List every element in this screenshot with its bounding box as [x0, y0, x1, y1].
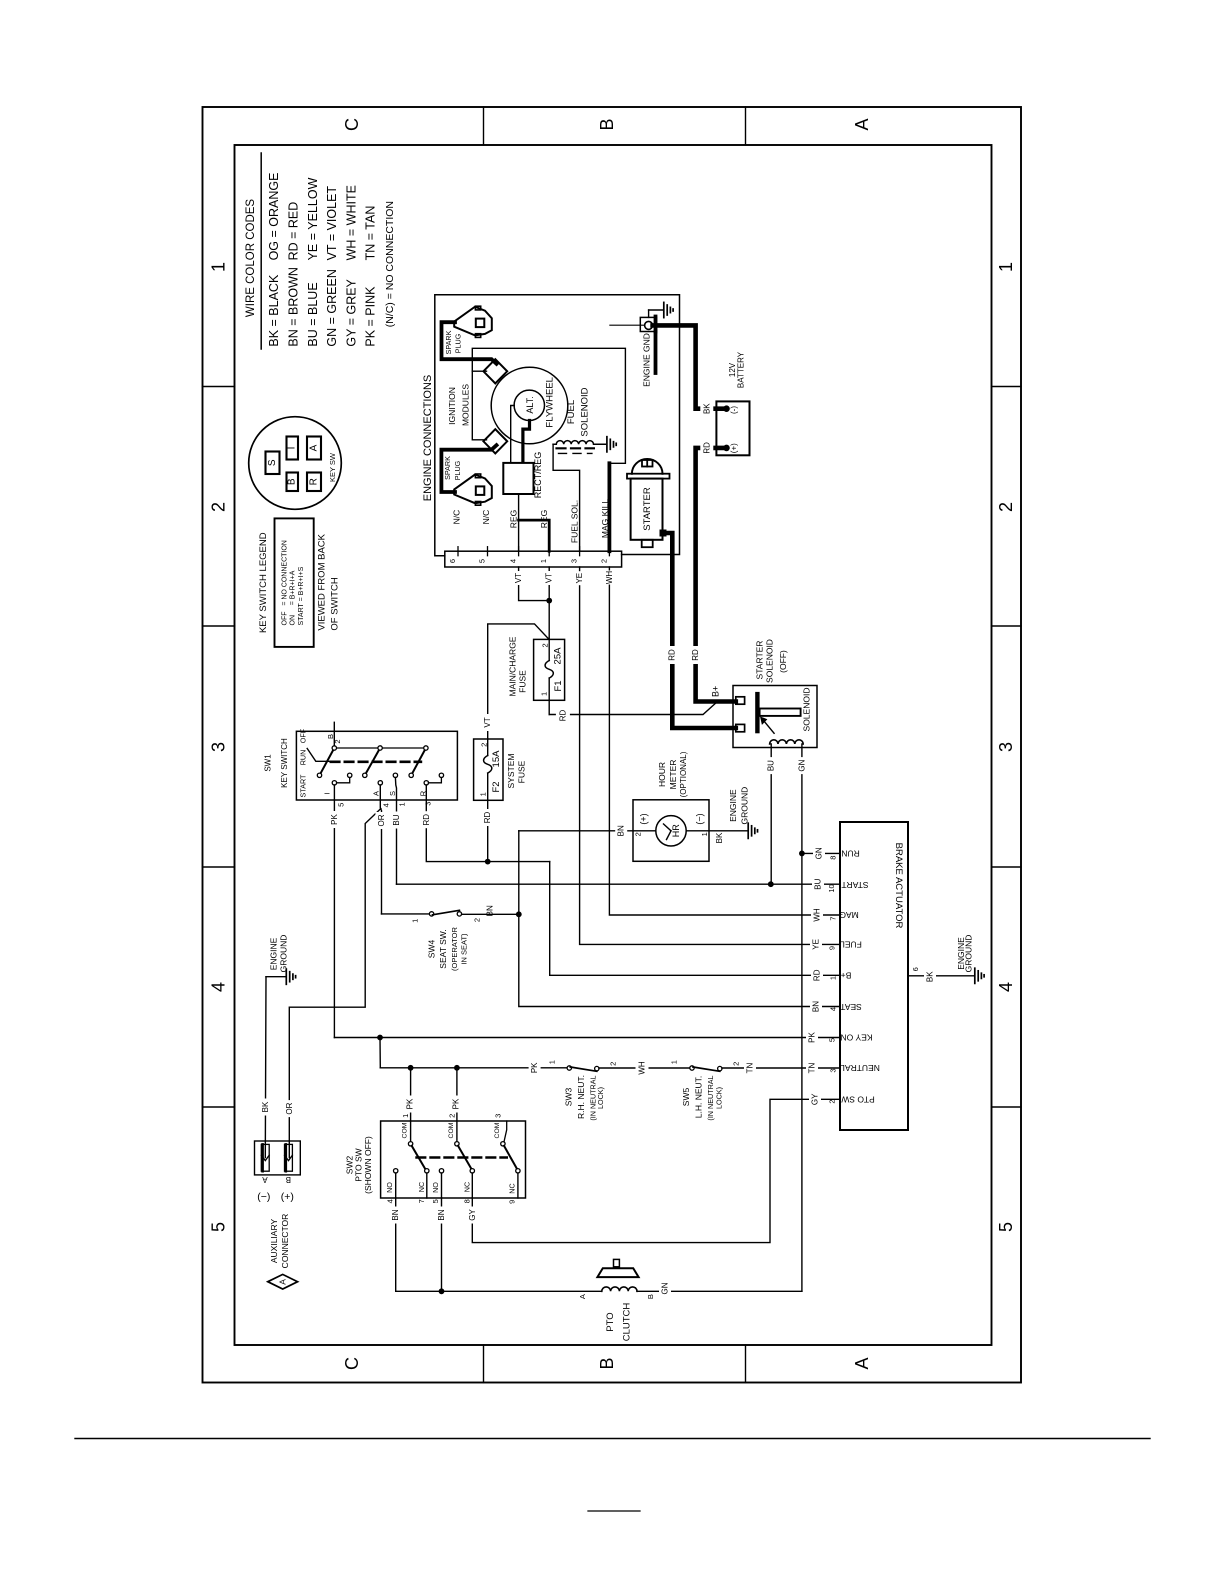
- wire PK key-on to actuator: [334, 1037, 840, 1039]
- key sw terminal B: [287, 473, 299, 492]
- wire label WH (neutral chain): [636, 1061, 649, 1076]
- wire RD B+ to actuator: [550, 862, 840, 976]
- svg-text:GY: GY: [811, 1093, 820, 1105]
- module 1 stub wire: [472, 370, 486, 372]
- svg-text:BK: BK: [702, 403, 711, 414]
- svg-text:B: B: [646, 1294, 655, 1299]
- aux pin A socket: [261, 1144, 269, 1171]
- wire GN run to actuator: [802, 852, 840, 854]
- svg-text:PK: PK: [452, 1098, 461, 1109]
- svg-text:2: 2: [333, 739, 342, 743]
- wire BK to aux connector: [264, 977, 267, 1158]
- svg-text:ENGINE: ENGINE: [728, 789, 738, 822]
- svg-text:(+): (+): [638, 813, 648, 824]
- ignition module 1: [483, 359, 507, 383]
- svg-text:C: C: [342, 1357, 362, 1370]
- svg-text:FUEL: FUEL: [566, 400, 577, 424]
- zone tick marks right band: [992, 386, 1022, 388]
- engine ground terminal circle: [645, 321, 653, 329]
- SW1 contact circles: [332, 746, 336, 750]
- wire label GY (actuator pto sw): [809, 1092, 821, 1107]
- svg-text:KEY SW: KEY SW: [328, 452, 337, 482]
- wire label OR (aux): [284, 1100, 296, 1117]
- svg-text:6: 6: [448, 559, 457, 563]
- svg-text:RD: RD: [702, 442, 711, 454]
- SW1 position indicator OFF/RUN/START: [307, 749, 329, 762]
- svg-text:8: 8: [463, 1199, 472, 1203]
- wire VT terminal 1 to fuse F1: [548, 567, 550, 639]
- hour meter box: [633, 800, 709, 862]
- fuel solenoid ground: [606, 437, 608, 452]
- svg-text:8: 8: [829, 856, 838, 860]
- svg-text:PLUG: PLUG: [454, 333, 463, 353]
- svg-text:2: 2: [473, 918, 482, 922]
- engine connections box: [435, 295, 680, 556]
- svg-text:R: R: [309, 478, 320, 485]
- svg-text:BRAKE ACTUATOR: BRAKE ACTUATOR: [893, 843, 904, 929]
- wire WH between neutral switches: [599, 1067, 690, 1069]
- svg-text:5: 5: [336, 803, 345, 807]
- fuse F1 25A MAIN/CHARGE: [534, 639, 565, 700]
- wire GN down to PTO clutch: [801, 853, 803, 1291]
- wire label VT (terminal 1): [543, 571, 555, 585]
- rectifier-regulator RECT/REG: [503, 463, 533, 494]
- svg-text:LOCK): LOCK): [715, 1087, 724, 1109]
- svg-text:METER: METER: [668, 760, 678, 790]
- engine ground stub wire: [610, 324, 645, 326]
- svg-text:BN: BN: [812, 1001, 821, 1012]
- svg-text:3: 3: [209, 742, 229, 752]
- svg-text:YE = YELLOW: YE = YELLOW: [306, 177, 320, 260]
- wire WH mag to actuator: [609, 567, 840, 915]
- svg-text:B: B: [326, 734, 335, 739]
- svg-text:(N/C) = NO CONNECTION: (N/C) = NO CONNECTION: [384, 201, 396, 327]
- wire label GN (solenoid coil): [796, 757, 808, 774]
- svg-text:7: 7: [417, 1199, 426, 1203]
- svg-text:FUEL: FUEL: [840, 940, 862, 950]
- svg-text:FUSE: FUSE: [516, 760, 526, 783]
- svg-text:5: 5: [431, 1199, 440, 1203]
- svg-text:A: A: [578, 1294, 587, 1299]
- svg-text:2: 2: [209, 502, 229, 512]
- SW1 B terminal stub: [333, 722, 335, 748]
- wire PK to PTO com1: [410, 1068, 412, 1142]
- svg-text:IN SEAT): IN SEAT): [460, 933, 469, 965]
- svg-text:BU = BLUE: BU = BLUE: [306, 282, 320, 346]
- svg-text:RUN: RUN: [299, 750, 308, 766]
- spark plug 1 lead wire (thick): [442, 322, 497, 364]
- svg-text:PK: PK: [405, 1098, 414, 1109]
- engine ground terminal box: [640, 317, 656, 331]
- wire YE fuel to actuator: [580, 567, 840, 944]
- wire label OR (SW1): [375, 812, 387, 829]
- SW1 pole 1 lever: [320, 748, 335, 775]
- svg-text:S: S: [388, 791, 397, 796]
- reference diamond A: [268, 1274, 298, 1289]
- SW1 terminal R link: [429, 778, 442, 783]
- svg-text:HOUR: HOUR: [657, 762, 667, 787]
- wire label VT (terminal 4): [513, 571, 525, 585]
- svg-text:7: 7: [829, 916, 838, 920]
- svg-text:RD: RD: [422, 814, 431, 826]
- svg-text:RD = RED: RD = RED: [287, 202, 301, 261]
- svg-text:(−): (−): [257, 1191, 270, 1203]
- neutral switch SW3 lever: [570, 1067, 597, 1071]
- footer short line: [588, 1510, 640, 1512]
- svg-text:SPARK: SPARK: [443, 456, 452, 480]
- svg-text:1: 1: [700, 832, 709, 836]
- svg-text:C: C: [342, 118, 362, 131]
- SW2 COM circles: [408, 1142, 412, 1146]
- svg-text:RD: RD: [813, 969, 822, 981]
- svg-text:12V: 12V: [728, 362, 737, 377]
- flywheel enclosure box: [472, 348, 625, 463]
- svg-text:WH: WH: [638, 1061, 647, 1075]
- svg-text:NC: NC: [417, 1182, 426, 1192]
- neutral switch SW5 contacts: [690, 1066, 694, 1070]
- svg-text:RD: RD: [691, 649, 700, 661]
- wire label PK (SW1): [328, 811, 340, 828]
- svg-text:BK: BK: [926, 971, 935, 982]
- svg-text:BU: BU: [814, 878, 823, 889]
- SW2 contact circles: [394, 1169, 398, 1173]
- wire label BK (actuator gnd pin6): [924, 970, 936, 983]
- starter cable (thick): [663, 533, 736, 728]
- hour meter circle HR: [656, 816, 686, 846]
- svg-text:WIRE COLOR CODES: WIRE COLOR CODES: [245, 199, 257, 318]
- SW2 levers: [412, 1146, 426, 1169]
- svg-text:NC: NC: [463, 1182, 472, 1192]
- engine connector terminal strip: [445, 551, 622, 567]
- SW1 wire BU: [395, 778, 396, 885]
- sheet inner border: [235, 145, 992, 1345]
- svg-text:B: B: [287, 478, 298, 485]
- svg-text:PTO SW: PTO SW: [353, 1148, 363, 1181]
- svg-text:GROUND: GROUND: [963, 935, 973, 973]
- svg-text:1: 1: [539, 559, 548, 563]
- svg-text:B+: B+: [841, 970, 852, 980]
- svg-text:B: B: [597, 118, 617, 130]
- engine ground symbol: [648, 310, 650, 317]
- SW1 common bus line: [334, 747, 426, 749]
- svg-text:SW1: SW1: [264, 754, 273, 772]
- alternator output wire thin: [511, 406, 515, 463]
- engine ground symbol (left): [266, 976, 286, 978]
- svg-text:KEY ON: KEY ON: [841, 1033, 873, 1043]
- key switch SW1 box: [296, 731, 457, 800]
- key sw terminal I: [287, 437, 299, 460]
- zone tick marks bottom band: [483, 1345, 485, 1383]
- svg-text:PTO: PTO: [605, 1312, 616, 1331]
- svg-text:VT: VT: [514, 573, 523, 583]
- PTO clutch body plate: [597, 1268, 638, 1277]
- battery cable BK (thick): [653, 325, 724, 408]
- wire label BU (actuator start): [812, 877, 824, 892]
- svg-text:SW5: SW5: [681, 1088, 691, 1107]
- starter solenoid box: [733, 686, 817, 748]
- svg-text:HR: HR: [671, 824, 681, 837]
- svg-text:25A: 25A: [553, 647, 564, 665]
- wire label YE (actuator fuel): [810, 937, 822, 952]
- key sw terminal S: [266, 452, 280, 475]
- svg-text:OR: OR: [377, 814, 386, 826]
- svg-text:B: B: [286, 1175, 291, 1184]
- key switch face circle KEY SW: [249, 417, 342, 510]
- SW1 wire PK: [333, 785, 335, 1038]
- battery 12V: [716, 401, 749, 455]
- svg-text:VT: VT: [545, 573, 554, 583]
- svg-text:A: A: [852, 1357, 872, 1369]
- alternator circle ALT: [514, 390, 544, 420]
- key switch legend box: [275, 518, 314, 647]
- svg-text:(OPTIONAL): (OPTIONAL): [679, 751, 688, 797]
- svg-text:5: 5: [996, 1222, 1016, 1232]
- svg-text:(OPERATOR: (OPERATOR: [450, 926, 459, 970]
- svg-text:GN: GN: [661, 1282, 670, 1294]
- wire label RD (battery cable): [689, 646, 702, 664]
- alternator output wire thick: [523, 421, 530, 463]
- svg-text:START = B+R+I+S: START = B+R+I+S: [298, 566, 305, 625]
- svg-text:RD: RD: [667, 649, 676, 661]
- PTO clutch stud: [614, 1259, 620, 1266]
- wire label WH (terminal 2): [603, 571, 616, 585]
- svg-text:SPARK: SPARK: [444, 330, 453, 354]
- ignition module 2: [483, 429, 507, 453]
- spark plug 2 lead wire (thick): [441, 445, 496, 492]
- hour meter engine ground symbol: [748, 823, 757, 838]
- svg-text:SEAT: SEAT: [840, 1002, 862, 1012]
- REG wires to strip terminals 4 and 1: [518, 494, 520, 551]
- svg-text:COM: COM: [494, 1122, 501, 1138]
- svg-text:ENGINE: ENGINE: [268, 937, 278, 970]
- svg-text:COM: COM: [448, 1122, 455, 1138]
- solenoid actuation arrow: [764, 721, 775, 734]
- svg-text:FLYWHEEL: FLYWHEEL: [545, 377, 556, 428]
- svg-text:3: 3: [996, 742, 1016, 752]
- footer rule: [75, 1438, 1150, 1440]
- svg-text:B+: B+: [710, 686, 720, 697]
- svg-text:STARTER: STARTER: [642, 487, 653, 531]
- wire label BK (aux): [260, 1099, 272, 1116]
- fuel solenoid wire to strip terminal 3: [553, 444, 580, 551]
- wire label PK (pto com2): [450, 1096, 462, 1113]
- seat switch SW4 contacts: [429, 912, 433, 916]
- wire label RD (F1 out): [556, 709, 570, 722]
- solenoid coil wire GN: [801, 744, 803, 853]
- svg-text:BU: BU: [766, 760, 775, 771]
- PTO clutch coil: [602, 1287, 637, 1291]
- wire label PK (pto com1): [404, 1096, 416, 1113]
- svg-text:10: 10: [827, 884, 836, 892]
- wire label GY (pto 8): [466, 1207, 478, 1224]
- SW1 wire OR branch to aux: [289, 809, 381, 1158]
- svg-text:NO: NO: [385, 1182, 394, 1193]
- svg-text:3: 3: [570, 559, 579, 563]
- svg-text:RD: RD: [483, 812, 492, 824]
- sheet outer border: [203, 107, 1022, 1383]
- svg-text:1: 1: [397, 802, 406, 806]
- seat switch SW4 lever: [433, 910, 460, 915]
- svg-text:15A: 15A: [491, 750, 502, 768]
- svg-text:2: 2: [732, 1062, 741, 1066]
- svg-text:4: 4: [996, 982, 1016, 992]
- wire label VT (F2 feed): [482, 714, 494, 731]
- aux pin B socket: [285, 1144, 293, 1171]
- neutral switch SW3 contacts: [567, 1066, 571, 1070]
- svg-text:2: 2: [634, 832, 643, 836]
- starter dome: [632, 459, 663, 474]
- wire label BU (solenoid coil): [765, 757, 777, 774]
- solenoid plunger crossbar: [760, 709, 801, 716]
- wire label TN (neutral chain): [744, 1061, 756, 1076]
- actuator ground pin 6 BK: [908, 975, 975, 977]
- svg-text:FUSE: FUSE: [517, 670, 527, 693]
- svg-text:(-): (-): [729, 406, 738, 414]
- svg-text:PK: PK: [530, 1062, 539, 1073]
- svg-text:1: 1: [411, 919, 420, 923]
- wire label BN (pto 5): [436, 1207, 448, 1224]
- svg-text:OFF = NO CONNECTION: OFF = NO CONNECTION: [282, 540, 289, 625]
- PTO switch SW2 box: [381, 1121, 526, 1198]
- svg-text:ENGINE GND: ENGINE GND: [642, 333, 652, 387]
- svg-text:9: 9: [828, 946, 837, 950]
- svg-text:1: 1: [401, 1114, 410, 1118]
- svg-text:SW3: SW3: [564, 1088, 574, 1107]
- svg-text:2: 2: [609, 1062, 618, 1066]
- wire BN from SW2 pin5: [441, 1198, 443, 1291]
- svg-text:WH: WH: [605, 571, 614, 585]
- svg-text:TN = TAN: TN = TAN: [364, 206, 378, 261]
- svg-text:SOLENOID: SOLENOID: [802, 688, 812, 732]
- svg-text:IGNITION: IGNITION: [447, 387, 457, 425]
- svg-text:BN: BN: [437, 1209, 446, 1220]
- svg-text:5: 5: [478, 559, 487, 563]
- flywheel circle: [491, 367, 568, 444]
- fuel solenoid core dashes: [557, 447, 594, 449]
- wire label RD (SW1): [420, 811, 432, 828]
- svg-text:I: I: [287, 447, 298, 450]
- wire label PK (actuator key on): [806, 1030, 818, 1045]
- solenoid coil: [770, 740, 804, 744]
- svg-text:SOLENOID: SOLENOID: [765, 639, 775, 683]
- SW1 terminal I link: [337, 778, 350, 783]
- svg-text:WH: WH: [813, 908, 822, 922]
- wire label PK (neutral chain): [529, 1060, 541, 1075]
- svg-text:BN: BN: [617, 825, 626, 836]
- svg-text:REG: REG: [509, 510, 519, 528]
- svg-text:5: 5: [209, 1222, 229, 1232]
- neutral switch SW5 lever: [693, 1067, 720, 1071]
- svg-text:NC: NC: [507, 1183, 516, 1193]
- svg-text:(−): (−): [695, 813, 705, 824]
- svg-text:GROUND: GROUND: [278, 935, 288, 973]
- svg-text:LOCK): LOCK): [596, 1087, 605, 1109]
- SW1 mechanical link (dashed): [331, 760, 421, 763]
- svg-text:I: I: [323, 792, 332, 794]
- SW1 pole 3 lever: [411, 748, 426, 775]
- svg-text:CLUTCH: CLUTCH: [621, 1303, 632, 1342]
- svg-text:PK = PINK: PK = PINK: [364, 286, 378, 347]
- svg-text:4: 4: [385, 1199, 394, 1203]
- svg-text:SYSTEM: SYSTEM: [506, 754, 516, 789]
- svg-text:START: START: [299, 774, 308, 798]
- wire label YE (terminal 3): [574, 571, 586, 585]
- svg-text:1: 1: [548, 1060, 557, 1064]
- wire label GN (actuator run): [813, 846, 825, 861]
- wire PK to PTO com2: [456, 1068, 458, 1142]
- svg-text:YE: YE: [812, 939, 821, 950]
- svg-text:BK: BK: [715, 832, 724, 843]
- svg-text:RD: RD: [558, 710, 567, 722]
- svg-text:PK: PK: [330, 814, 339, 825]
- svg-text:STARTER: STARTER: [754, 641, 764, 680]
- svg-text:TN: TN: [746, 1062, 755, 1073]
- SW1 wire RD: [426, 785, 549, 862]
- svg-text:PK: PK: [808, 1032, 817, 1043]
- svg-text:BK: BK: [261, 1101, 270, 1112]
- starter body: [631, 479, 663, 540]
- svg-text:S: S: [267, 459, 278, 466]
- svg-text:GN: GN: [797, 759, 806, 771]
- svg-text:4: 4: [209, 982, 229, 992]
- svg-text:SW4: SW4: [426, 940, 436, 959]
- seat switch SW4 feed wire: [382, 913, 430, 915]
- zone tick marks top band: [483, 107, 485, 145]
- svg-text:BU: BU: [392, 814, 401, 825]
- svg-text:GN: GN: [815, 847, 824, 859]
- svg-text:A: A: [309, 444, 320, 451]
- svg-text:4: 4: [381, 803, 390, 807]
- svg-text:YE: YE: [575, 573, 584, 584]
- wire VT terminal 4: [519, 567, 550, 601]
- svg-text:1: 1: [829, 976, 838, 980]
- svg-text:A: A: [372, 791, 381, 796]
- legend underline: [260, 153, 262, 349]
- key sw terminal R: [307, 473, 321, 492]
- svg-text:2: 2: [541, 643, 550, 647]
- spark plug 1 (top): [454, 307, 492, 336]
- solenoid plunger bar: [755, 692, 759, 733]
- svg-text:A: A: [852, 118, 872, 130]
- svg-text:(+): (+): [729, 443, 738, 453]
- svg-text:BATTERY: BATTERY: [737, 351, 746, 388]
- SW1 pole 2 lever: [365, 748, 380, 775]
- svg-text:ON = B+R+I+A: ON = B+R+I+A: [290, 570, 297, 625]
- svg-text:5: 5: [828, 1038, 837, 1042]
- svg-text:A: A: [262, 1175, 268, 1184]
- svg-text:SEAT SW.: SEAT SW.: [438, 929, 448, 968]
- hour meter BN wire: [519, 830, 656, 832]
- svg-text:SOLENOID: SOLENOID: [580, 387, 591, 436]
- svg-text:NEUTRAL: NEUTRAL: [840, 1063, 880, 1073]
- svg-text:1: 1: [539, 692, 548, 696]
- mag kill wire (thick): [608, 463, 612, 551]
- svg-text:PTO SW: PTO SW: [841, 1094, 874, 1104]
- svg-text:FUEL SOL.: FUEL SOL.: [570, 500, 580, 543]
- svg-text:3: 3: [493, 1114, 502, 1118]
- wire label TN (actuator neutral): [806, 1061, 818, 1076]
- svg-text:R.H. NEUT.: R.H. NEUT.: [576, 1075, 586, 1119]
- wire label BN (pto 4): [390, 1207, 402, 1224]
- wire label GN (pto clutch): [659, 1282, 671, 1295]
- wire label BN (actuator seat): [810, 999, 822, 1014]
- SW2 COM3 stub: [504, 1121, 507, 1142]
- svg-text:2: 2: [600, 559, 609, 563]
- SW1 wire OR (to seat switch): [380, 785, 381, 914]
- svg-text:2: 2: [996, 502, 1016, 512]
- SW2 contact stems: [395, 1173, 397, 1198]
- svg-text:B: B: [597, 1357, 617, 1369]
